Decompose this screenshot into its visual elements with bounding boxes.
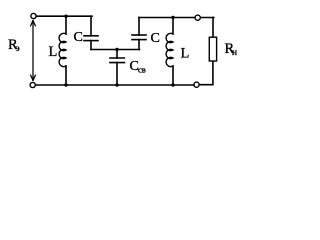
capacitor C2 (132, 18, 146, 50)
terminal bottom-left (30, 82, 35, 87)
wire bottom (full rail) (35, 84, 194, 86)
svg-text:C: C (151, 31, 160, 46)
terminal top-right (195, 15, 200, 20)
svg-text:св: св (138, 65, 146, 75)
label Rэ (8, 37, 20, 54)
wire top-left (terminal to C1 corner) (36, 15, 92, 17)
resistor Rн (load box) (209, 37, 216, 61)
svg-text:L: L (181, 46, 190, 62)
junction node bottom of L1 (64, 83, 67, 86)
capacitor Cсв (coupling) (110, 50, 124, 86)
label Cсв (130, 59, 146, 75)
label Rн (225, 41, 238, 58)
terminal bottom-right (194, 82, 199, 87)
junction node top of L2 (171, 16, 174, 19)
junction node bottom of Cсв (115, 83, 118, 86)
wire Rн top lead (212, 18, 214, 38)
wire top-right (C2 corner to Rн corner) (139, 17, 214, 19)
junction node top of L1 (64, 15, 67, 18)
inductor L2 (166, 18, 173, 86)
inductor L1 (59, 16, 66, 85)
capacitor C1 (84, 16, 98, 49)
svg-text:н: н (232, 48, 237, 58)
arrow Rэ double-headed between input terminals (31, 21, 36, 81)
junction node bottom of L2 (171, 83, 174, 86)
svg-text:L: L (49, 44, 58, 60)
svg-text:э: э (16, 44, 20, 54)
wire bottom-right segment to Rн (199, 61, 213, 84)
junction node top of Cсв (115, 48, 118, 51)
wire middle (common node of C1, C2, Cсв) (91, 49, 140, 51)
svg-text:C: C (74, 30, 83, 45)
terminal top-left (31, 13, 36, 18)
